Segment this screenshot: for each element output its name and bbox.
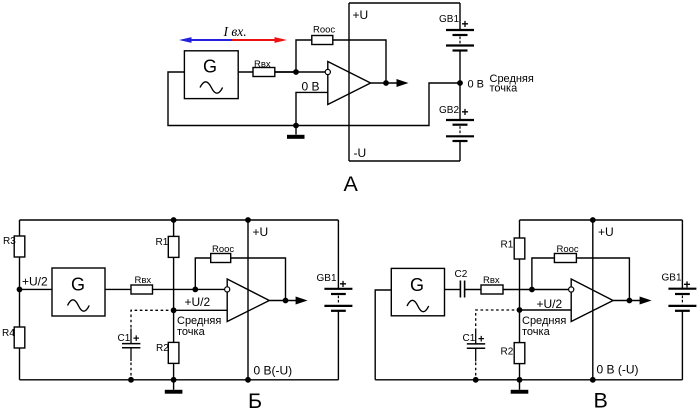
svg-text:Rоос: Rоос (212, 244, 234, 255)
svg-text:C1: C1 (118, 333, 131, 344)
svg-text:точка: точка (490, 83, 519, 95)
svg-text:-U: -U (354, 146, 367, 160)
svg-text:+: + (462, 105, 469, 119)
svg-text:+: + (133, 333, 139, 345)
svg-text:Б: Б (248, 389, 262, 412)
svg-text:I вх.: I вх. (223, 24, 247, 39)
svg-text:Rвх: Rвх (254, 59, 271, 70)
svg-text:0 В: 0 В (302, 79, 320, 93)
svg-text:+: + (462, 17, 469, 31)
svg-text:+U: +U (253, 225, 269, 239)
svg-text:Rоос: Rоос (557, 244, 579, 255)
svg-text:+: + (340, 277, 347, 291)
svg-text:0 В(-U): 0 В(-U) (254, 364, 293, 378)
svg-text:GB1: GB1 (439, 14, 459, 25)
svg-text:+U: +U (353, 8, 369, 22)
svg-text:точка: точка (177, 326, 206, 338)
svg-text:точка: точка (522, 326, 551, 338)
svg-text:0 В: 0 В (468, 78, 485, 90)
svg-text:R2: R2 (156, 343, 169, 354)
svg-text:R1: R1 (156, 237, 169, 248)
svg-text:Rвх: Rвх (483, 275, 500, 286)
svg-text:+: + (478, 334, 484, 346)
svg-text:GB2: GB2 (439, 105, 459, 116)
svg-text:+U/2: +U/2 (22, 274, 48, 288)
svg-text:R2: R2 (501, 347, 514, 358)
svg-text:Rвх: Rвх (135, 275, 152, 286)
svg-text:+U/2: +U/2 (185, 295, 211, 309)
svg-text:G: G (410, 275, 424, 295)
svg-text:0 В (-U): 0 В (-U) (597, 363, 639, 377)
svg-text:R3: R3 (3, 236, 16, 247)
svg-text:R4: R4 (2, 328, 15, 339)
svg-text:G: G (203, 56, 217, 76)
svg-text:В: В (594, 389, 608, 412)
svg-text:Rоос: Rоос (313, 24, 335, 35)
svg-text:А: А (344, 172, 359, 196)
svg-text:C1: C1 (463, 333, 476, 344)
svg-text:GB1: GB1 (317, 273, 337, 284)
svg-text:GB1: GB1 (662, 273, 682, 284)
svg-text:+U: +U (598, 225, 614, 239)
svg-text:+: + (684, 278, 691, 292)
svg-text:C2: C2 (455, 269, 468, 280)
svg-text:R1: R1 (501, 240, 514, 251)
svg-text:+U/2: +U/2 (537, 297, 563, 311)
svg-text:G: G (71, 274, 85, 294)
